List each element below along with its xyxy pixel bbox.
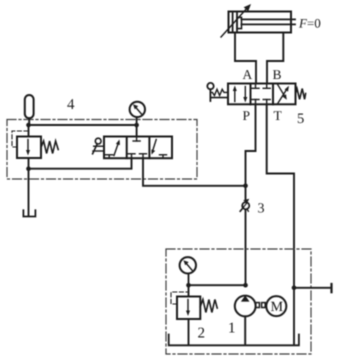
valve U5 right envelope crossed arrows: [278, 85, 289, 103]
label P: [243, 111, 250, 120]
wire relief 2 to tank: [188, 319, 190, 345]
relief valve (box4) pilot dashed line: [12, 131, 28, 147]
relief valve 2 body: [177, 285, 200, 319]
label 1: [229, 323, 234, 333]
wire relief valve to lower bus: [28, 158, 30, 169]
label T: [274, 111, 282, 120]
cylinder piston rod: [242, 19, 296, 24]
relief valve (box4) body: [17, 125, 41, 158]
relief valve (box4) spring: [41, 141, 58, 154]
wire valve U5 T port to tank return: [267, 104, 294, 287]
junction node accumulator: [26, 123, 31, 128]
directional valve U5 body: [228, 84, 296, 105]
label 2: [198, 328, 204, 338]
wire cylinder left port to valve A: [235, 33, 256, 84]
junction node pump outlet: [243, 283, 248, 288]
label 5: [298, 114, 304, 124]
cylinder adjustable-cushion arrow: [221, 4, 251, 37]
valve U5 centre envelope blocked ports: [252, 84, 270, 105]
pilot valve lever operator: [93, 138, 104, 154]
junction node T-line: [292, 286, 297, 291]
label 4: [67, 99, 74, 109]
cylinder body: [229, 12, 292, 33]
throttle valve 3: [240, 199, 249, 212]
wire T line into tank: [293, 288, 295, 345]
accumulator: [25, 95, 34, 125]
junction node gauge-relief: [186, 283, 191, 288]
label 3: [258, 203, 264, 212]
wire cylinder right port to valve B: [267, 33, 283, 84]
capped test port: [294, 284, 332, 292]
wire relief to tank: [28, 169, 30, 216]
pressure gauge G4: [130, 102, 145, 125]
tank (below box 4): [23, 210, 35, 216]
pilot valve (box4) body: [104, 137, 172, 159]
cylinder piston: [233, 12, 242, 33]
pressure gauge G2: [180, 257, 196, 285]
label B: [273, 70, 281, 79]
pilot valve right envelope: [151, 140, 166, 159]
tank (power unit): [169, 335, 299, 346]
dash-dot enclosure box 2 (power unit): [166, 249, 311, 354]
valve U5 left envelope arrows: [233, 86, 248, 103]
junction node relief outlet: [26, 166, 31, 171]
label F=0: [299, 19, 320, 28]
wire P-line through throttle to pump: [245, 186, 247, 285]
wire lower bus to pilot valve port: [29, 158, 132, 169]
dash-dot enclosure box 4: [7, 120, 197, 180]
pump 1: [235, 295, 256, 344]
junction node gauge stem: [134, 123, 139, 128]
label M: [271, 302, 283, 311]
pump-motor coupling: [256, 303, 265, 308]
wire valve U5 P port to main pressure line: [246, 104, 256, 186]
valve U5 right return spring: [296, 89, 306, 100]
relief valve 2 pilot dashed line: [171, 292, 188, 304]
relief valve 2 spring: [200, 300, 217, 313]
wire gauge junction to pilot valve top port: [136, 125, 138, 137]
junction node P-line / pilot-valve output: [243, 184, 248, 189]
pilot valve centre envelope blocked ports: [128, 137, 147, 159]
wire gauge/relief bus to pump outlet: [189, 284, 246, 286]
wire pilot supply bus: [29, 124, 137, 126]
pilot valve left envelope: [106, 140, 120, 159]
motor M: [266, 296, 286, 316]
wire pilot valve output to main line: [143, 158, 246, 186]
valve U5 lever operator with spring: [207, 83, 228, 101]
label A: [243, 70, 253, 79]
